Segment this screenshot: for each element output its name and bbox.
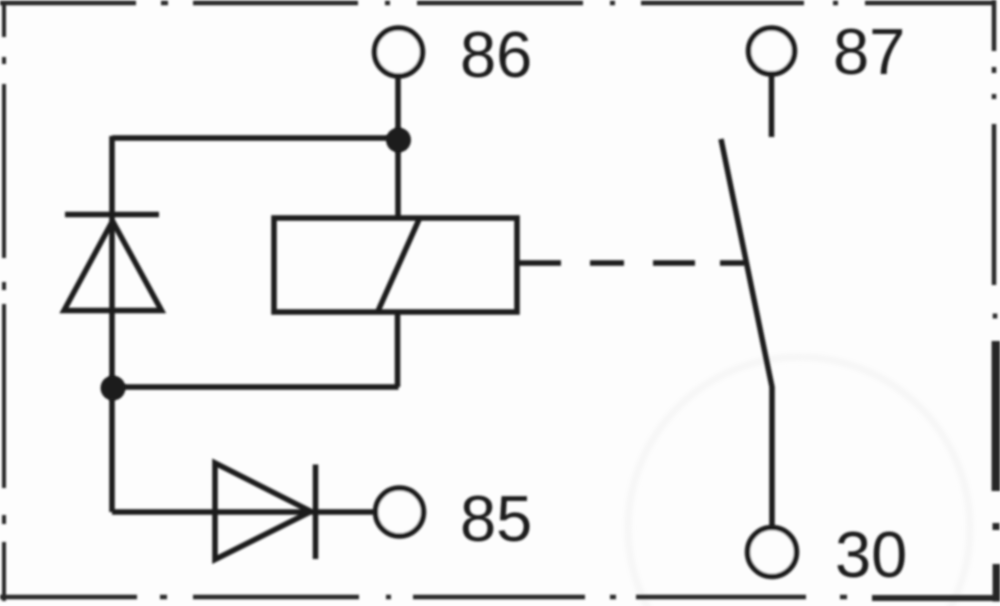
svg-text:85: 85 <box>460 482 532 555</box>
svg-text:86: 86 <box>460 18 532 91</box>
svg-text:87: 87 <box>833 15 905 88</box>
svg-text:30: 30 <box>835 518 907 591</box>
